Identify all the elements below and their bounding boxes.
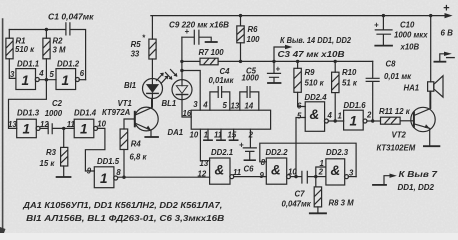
svg-text:R9: R9 — [305, 68, 316, 77]
svg-text:R4: R4 — [131, 140, 142, 149]
svg-text:+: + — [239, 141, 244, 150]
svg-text:0,01мк: 0,01мк — [209, 76, 235, 85]
svg-text:9: 9 — [87, 166, 92, 175]
wire feedback node to DD1.3 input pin 13 — [9, 80, 47, 129]
ground C6 — [244, 159, 255, 161]
svg-text:&: & — [271, 163, 281, 178]
svg-text:DD1.1: DD1.1 — [17, 59, 39, 68]
wire branch to DA1 pins 3,4 — [182, 71, 200, 111]
emission arrows BI1 — [157, 74, 168, 84]
+6V supply rail top — [151, 15, 448, 17]
resistor R5 — [151, 16, 153, 39]
svg-text:3: 3 — [10, 70, 15, 79]
svg-text:К Выв 7: К Выв 7 — [399, 170, 438, 179]
node branch DA1 pins 3,4 — [180, 69, 183, 72]
capacitor C7 — [302, 171, 316, 183]
capacitor C8 — [366, 61, 379, 121]
svg-text:5: 5 — [297, 112, 302, 121]
svg-text:R8 3 М: R8 3 М — [329, 199, 355, 208]
svg-text:НА1: НА1 — [404, 84, 420, 93]
svg-text:12: 12 — [198, 169, 207, 178]
svg-text:BI1 АЛ156В, BL1 ФД263-01, С6: BI1 АЛ156В, BL1 ФД263-01, С6 3,3мкх16В — [26, 214, 224, 223]
svg-text:R10: R10 — [342, 68, 357, 77]
wire DD2.3 pin 1 bracket — [316, 167, 326, 177]
capacitor C1 — [66, 23, 70, 35]
svg-text:КТ972А: КТ972А — [102, 108, 131, 117]
wire to DD2.3 pin 2 — [316, 176, 326, 178]
svg-text:DA1: DA1 — [168, 128, 184, 137]
node DD2.2 out / DD2.4 pin5 — [294, 175, 297, 178]
svg-text:+: + — [443, 3, 450, 15]
wire DD2.4 out to DD1.6 — [328, 120, 343, 122]
svg-text:1: 1 — [320, 159, 324, 168]
svg-text:R5: R5 — [131, 40, 142, 49]
svg-text:DD1.4: DD1.4 — [74, 109, 97, 118]
resistor R2 — [45, 30, 47, 39]
resistor R8 — [315, 177, 317, 187]
wire DD1.6 out to R11 — [367, 120, 381, 122]
node pin4/pin5 — [45, 78, 48, 81]
wire C2 right to DD1.4 pin 11 — [53, 127, 75, 129]
svg-text:1000: 1000 — [242, 74, 260, 83]
svg-text:DD2.1: DD2.1 — [211, 148, 233, 157]
capacitor C10 — [382, 14, 385, 17]
ground R3 — [63, 166, 65, 177]
svg-text:1: 1 — [204, 130, 208, 139]
svg-text:ДА1 К1056УП1, DD1 К561ЛН2, D: ДА1 К1056УП1, DD1 К561ЛН2, DD2 К561ЛА7, — [22, 201, 222, 210]
wire C9 left down to BL1 — [181, 37, 183, 70]
svg-text:DD2.3: DD2.3 — [326, 148, 349, 157]
wire R4 top to VT1 base — [124, 119, 135, 129]
svg-text:VT1: VT1 — [118, 99, 132, 108]
svg-text:33: 33 — [131, 50, 140, 59]
svg-text:1: 1 — [100, 171, 108, 186]
svg-text:R7 100: R7 100 — [199, 48, 225, 57]
wire DD2.1 out to DD2.2 pin 9 — [234, 176, 267, 178]
node C7/R8/DD2.3 inputs — [314, 175, 317, 178]
svg-text:DD2.4: DD2.4 — [305, 93, 328, 102]
wire R9 to DD2.4 pin 6 — [298, 92, 306, 106]
node rail mid R6 — [239, 60, 242, 63]
node C2/R3 — [62, 127, 65, 130]
svg-text:R2: R2 — [53, 37, 64, 46]
svg-text:2: 2 — [366, 111, 372, 120]
scan border line (left edge) — [2, 19, 4, 233]
svg-text:10: 10 — [97, 120, 106, 129]
svg-text:R6: R6 — [248, 25, 259, 34]
resistor R10 — [334, 60, 337, 63]
annotation arrow К Выв.14 — [274, 47, 287, 61]
ground VT2 emitter — [424, 145, 440, 147]
svg-text:С10: С10 — [400, 21, 415, 30]
svg-text:0,047мк: 0,047мк — [282, 200, 312, 209]
wire C1 right to DD1.2 output — [70, 30, 85, 80]
svg-text:VT2: VT2 — [392, 131, 407, 140]
svg-text:8: 8 — [116, 168, 121, 177]
ground C3 — [268, 82, 281, 84]
ground C10 — [375, 45, 392, 47]
svg-text:С3 47 мк х10В: С3 47 мк х10В — [278, 50, 345, 59]
node rail/R7 — [180, 60, 183, 63]
resistor R4 — [123, 150, 125, 178]
svg-text:С4: С4 — [220, 67, 231, 76]
wire R1 bottom to DD1.1 input pin 3 — [9, 59, 16, 79]
svg-text:11: 11 — [233, 168, 241, 177]
svg-text:DD1.2: DD1.2 — [57, 59, 80, 68]
svg-text:4: 4 — [38, 69, 44, 78]
svg-text:С7: С7 — [295, 190, 306, 199]
ground C9 — [206, 41, 217, 43]
svg-text:R3: R3 — [46, 148, 57, 157]
svg-text:8: 8 — [261, 158, 266, 167]
resistor R6 — [240, 16, 242, 26]
svg-text:15: 15 — [228, 130, 237, 139]
svg-text:+: + — [374, 21, 379, 30]
svg-text:1: 1 — [62, 73, 70, 88]
capacitor C2 — [48, 124, 52, 134]
svg-text:100: 100 — [247, 35, 261, 44]
svg-text:C1 0,047мк: C1 0,047мк — [48, 13, 95, 22]
wire DD1.4 out to DD1.5 pin 9 — [85, 128, 105, 171]
resistor R3 — [63, 128, 65, 147]
svg-text:DD1.3: DD1.3 — [17, 109, 40, 118]
svg-text:&: & — [310, 107, 320, 122]
wire supply mid rail — [218, 60, 373, 62]
svg-text:510 к: 510 к — [15, 45, 35, 54]
wire DD2.2 out to C7 — [290, 176, 301, 178]
svg-text:BL1: BL1 — [162, 99, 177, 108]
svg-text:1: 1 — [350, 114, 358, 129]
node R10/DD1.6 input — [334, 119, 337, 122]
svg-text:6: 6 — [297, 101, 302, 110]
svg-text:1: 1 — [23, 122, 31, 137]
svg-text:14: 14 — [245, 101, 254, 110]
wire DD1.3 out to C2 — [40, 127, 48, 129]
svg-text:13: 13 — [231, 101, 240, 110]
svg-text:&: & — [331, 163, 341, 178]
svg-text:3 М: 3 М — [53, 46, 67, 55]
svg-text:С8: С8 — [386, 60, 397, 69]
ground VT1 emitter — [145, 136, 158, 138]
svg-text:C2: C2 — [52, 99, 63, 108]
svg-text:R11 12 к: R11 12 к — [379, 107, 411, 116]
svg-text:13: 13 — [200, 159, 209, 168]
node rail top R6 — [239, 14, 242, 17]
wire DD1.5 out long to DD2.1 pin 12 — [118, 176, 210, 178]
wire DD2.4 pin5 down to DD2.2 output — [296, 118, 305, 177]
wire R2 bottom — [45, 59, 47, 80]
svg-text:1000: 1000 — [45, 109, 63, 118]
svg-text:С6: С6 — [244, 165, 255, 174]
svg-text:х10В: х10В — [400, 43, 420, 52]
wire DD1.2 output to C1 vertical — [79, 79, 85, 81]
waveform output symbol — [434, 61, 445, 63]
node C8/DD1.6 out — [371, 119, 374, 122]
svg-text:DD1, DD2: DD1, DD2 — [398, 183, 435, 192]
svg-text:К Выв. 14 DD1, DD2: К Выв. 14 DD1, DD2 — [280, 36, 352, 45]
svg-text:9: 9 — [260, 171, 265, 180]
svg-text:13: 13 — [8, 120, 17, 129]
svg-text:&: & — [215, 163, 225, 178]
wire top node R1/R2/C1 — [9, 29, 65, 31]
svg-text:1: 1 — [338, 112, 342, 121]
resistor R1 — [8, 30, 10, 39]
svg-text:10: 10 — [190, 130, 199, 139]
svg-text:+: + — [185, 27, 190, 36]
svg-text:510 к: 510 к — [305, 79, 325, 88]
svg-text:1000 мкх: 1000 мкх — [394, 31, 428, 40]
wire DD2.3 out — [348, 176, 356, 178]
svg-text:1: 1 — [80, 122, 88, 137]
svg-text:2: 2 — [318, 168, 324, 177]
reception arrows BL1 — [166, 70, 177, 80]
svg-text:4: 4 — [202, 101, 208, 110]
svg-text:4: 4 — [327, 111, 333, 120]
svg-text:DD1.5: DD1.5 — [97, 157, 120, 166]
wire DD2.2 pin 8 cross-couple from DD2.3 output — [260, 143, 356, 176]
node R4 bottom — [122, 176, 125, 179]
svg-text:+: + — [276, 65, 281, 74]
svg-text:BI1: BI1 — [124, 81, 136, 90]
svg-text:DD1.6: DD1.6 — [344, 101, 367, 110]
svg-text:1: 1 — [22, 73, 30, 88]
svg-text:6: 6 — [80, 69, 85, 78]
svg-text:5: 5 — [223, 101, 228, 110]
svg-text:6,8 к: 6,8 к — [130, 153, 148, 162]
svg-text:КТ3102ЕМ: КТ3102ЕМ — [377, 144, 416, 153]
svg-text:51 к: 51 к — [342, 79, 358, 88]
svg-text:C9 220 мк х16В: C9 220 мк х16В — [169, 21, 229, 30]
resistor R9 — [296, 60, 299, 63]
wire DD1.1 out to DD1.2 in — [39, 79, 56, 81]
svg-text:5: 5 — [50, 70, 55, 79]
svg-text:16: 16 — [183, 109, 192, 118]
svg-text:0,01 мк: 0,01 мк — [384, 72, 412, 81]
svg-text:11: 11 — [67, 120, 75, 129]
annotation К Выв 7 with ground — [373, 184, 386, 186]
ground R8 — [317, 207, 319, 213]
svg-text:3: 3 — [193, 100, 198, 109]
node R2 top — [45, 28, 48, 31]
svg-text:DD2.2: DD2.2 — [266, 148, 289, 157]
svg-text:6 В: 6 В — [441, 29, 454, 38]
svg-text:15 к: 15 к — [40, 159, 56, 168]
